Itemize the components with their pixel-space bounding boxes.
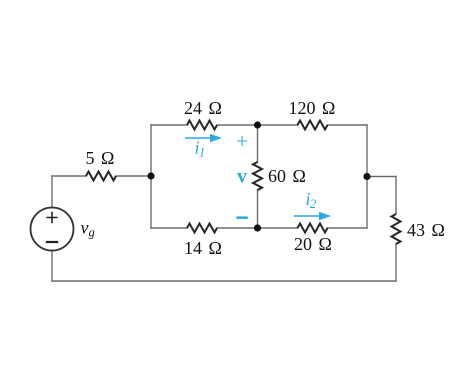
svg-text:43 Ω: 43 Ω bbox=[407, 220, 445, 240]
svg-text:24 Ω: 24 Ω bbox=[184, 98, 222, 118]
svg-text:60 Ω: 60 Ω bbox=[268, 166, 306, 186]
svg-text:i1: i1 bbox=[195, 138, 206, 160]
svg-text:+: + bbox=[236, 129, 248, 153]
svg-text:i2: i2 bbox=[306, 189, 317, 211]
svg-text:20 Ω: 20 Ω bbox=[294, 234, 332, 254]
svg-text:5 Ω: 5 Ω bbox=[86, 148, 115, 168]
svg-text:120 Ω: 120 Ω bbox=[289, 98, 336, 118]
svg-text:14 Ω: 14 Ω bbox=[184, 238, 222, 258]
svg-text:v: v bbox=[237, 166, 247, 188]
svg-text:vg: vg bbox=[81, 218, 95, 240]
